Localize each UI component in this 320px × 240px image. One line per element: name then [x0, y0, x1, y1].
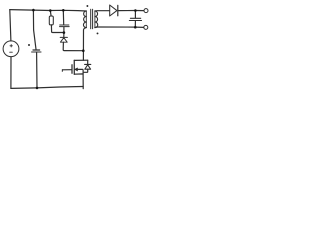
wire: top rail from source to primary — [10, 10, 86, 11]
capacitor C1 input bulk, top lead — [33, 10, 36, 49]
wire: primary bottom to MOSFET drain — [83, 28, 86, 61]
diode D3 cathode bar — [117, 5, 119, 15]
resistor R1 bottom lead to junction — [51, 25, 64, 33]
wire: secondary top lead — [95, 10, 110, 12]
phase dot secondary — [97, 32, 99, 34]
terminal output plus — [144, 9, 148, 13]
MOSFET Q1 body connection — [78, 69, 84, 74]
capacitor C3 output, top lead — [134, 11, 136, 18]
diode D3 output rectifier triangle — [110, 5, 117, 16]
diode D1 triangle — [60, 38, 67, 43]
resistor R1 snubber, top lead — [49, 11, 52, 17]
diode D2 cathode bar — [85, 63, 91, 65]
capacitor C3 plates — [130, 17, 140, 19]
wire: left vertical (source bottom lead) — [10, 57, 12, 89]
node: rail to C2 — [62, 9, 65, 12]
MOSFET Q1 body arrow — [75, 68, 78, 71]
MOSFET Q1 source lead — [74, 74, 83, 89]
diode D1 cathode bar — [60, 36, 67, 38]
node: output top to C3 — [134, 9, 137, 12]
transformer T1 secondary winding — [95, 11, 98, 28]
wire: left vertical (source top lead) — [10, 10, 11, 41]
MOSFET Q1 gate lead — [62, 69, 71, 71]
capacitor C1 plates — [33, 49, 40, 51]
capacitor C2 plates — [60, 24, 69, 26]
wire: bottom rail — [11, 87, 83, 89]
MOSFET Q1 drain tee bar — [74, 59, 87, 61]
resistor R1 body — [49, 16, 53, 25]
node: output bottom to C3 — [134, 26, 137, 29]
voltage source V1 — [3, 41, 19, 57]
wire: secondary bottom to output minus terminal — [95, 26, 144, 29]
node: bottom rail to C1 — [36, 87, 39, 90]
transformer T1 core — [91, 9, 93, 29]
node: snubber RC junction — [63, 31, 66, 34]
diode D2 body, cathode lead — [87, 60, 89, 64]
node: drain node — [82, 49, 85, 52]
node: rail to C1 — [32, 9, 35, 12]
MOSFET Q1 gate bar — [71, 65, 73, 73]
diode D2 triangle — [85, 65, 91, 69]
MOSFET Q1 channel vertical — [73, 60, 75, 74]
diode D2 anode lead — [83, 69, 88, 72]
capacitor C1 polarity mark — [28, 44, 30, 46]
transformer T1 primary winding — [83, 11, 86, 28]
MOSFET Q1 gate terminal tick — [61, 70, 63, 72]
node: rail to R1 — [49, 9, 52, 12]
wire: D3 cathode to output plus terminal — [118, 10, 144, 12]
capacitor C2 bottom lead — [63, 27, 65, 32]
phase dot primary — [86, 5, 88, 7]
capacitor C1 bottom lead — [36, 53, 38, 88]
diode D1 snubber clamp, cathode lead — [63, 33, 65, 38]
diode D1 anode lead to drain node — [63, 42, 83, 51]
capacitor C3 bottom lead — [134, 21, 136, 27]
capacitor C2 snubber, top lead — [62, 10, 64, 24]
terminal output minus — [144, 25, 148, 29]
